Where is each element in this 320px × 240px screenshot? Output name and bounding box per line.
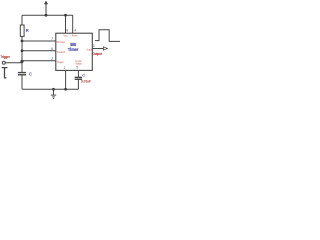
svg-text:3: 3 bbox=[93, 44, 95, 48]
svg-text:Output: Output bbox=[93, 52, 103, 56]
svg-text:0.01uF: 0.01uF bbox=[81, 80, 91, 84]
svg-text:4: 4 bbox=[74, 28, 76, 32]
svg-text:R: R bbox=[26, 28, 29, 33]
svg-text:Vcc: Vcc bbox=[63, 34, 68, 38]
svg-text:Trigger: Trigger bbox=[57, 60, 64, 64]
svg-text:7: 7 bbox=[51, 37, 53, 41]
svg-text:Timer: Timer bbox=[68, 47, 78, 53]
svg-text:Discharge: Discharge bbox=[57, 40, 66, 44]
svg-text:Reset: Reset bbox=[72, 34, 78, 38]
svg-text:5: 5 bbox=[76, 66, 78, 70]
svg-text:6: 6 bbox=[51, 47, 53, 51]
svg-text:2: 2 bbox=[51, 57, 53, 61]
svg-text:Trigger: Trigger bbox=[0, 55, 10, 59]
svg-text:Threshold: Threshold bbox=[57, 50, 66, 54]
svg-text:Output: Output bbox=[86, 48, 92, 52]
svg-text:8: 8 bbox=[66, 28, 68, 32]
svg-text:C: C bbox=[82, 73, 85, 78]
svg-text:1: 1 bbox=[64, 66, 66, 70]
